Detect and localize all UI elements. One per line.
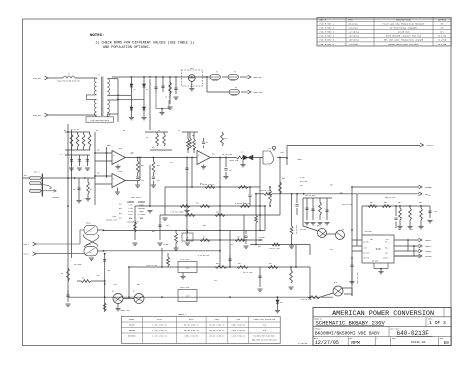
svg-text:R26: R26 <box>216 212 219 214</box>
svg-text:R11: R11 <box>225 138 228 140</box>
svg-text:PROBL1: PROBL1 <box>425 240 431 242</box>
svg-text:C11: C11 <box>157 180 160 182</box>
svg-text:F: F <box>377 338 378 340</box>
svg-text:COMMON: COMMON <box>425 256 431 258</box>
svg-text:R44: R44 <box>114 284 117 286</box>
svg-text:AND POPULATION OPTIONS.: AND POPULATION OPTIONS. <box>103 46 150 50</box>
svg-text:PCB E REV 1: PCB E REV 1 <box>320 22 335 25</box>
svg-text:MLJ: MLJ <box>440 31 445 34</box>
svg-text:1K_PD_LINE: 1K_PD_LINE <box>296 225 298 234</box>
svg-text:OSC: OSC <box>386 239 389 241</box>
svg-text:BK300MI/BK500MI VDE BABY: BK300MI/BK500MI VDE BABY <box>315 330 380 336</box>
svg-text:C16: C16 <box>230 244 233 246</box>
svg-text:10K_1N_LINE: 10K_1N_LINE <box>243 272 252 274</box>
svg-text:R41: R41 <box>238 263 241 265</box>
svg-text:COM_2: COM_2 <box>24 253 30 256</box>
svg-text:R33: R33 <box>203 225 206 227</box>
svg-text:25V: 25V <box>300 185 303 187</box>
svg-text:5REF: 5REF <box>107 145 111 147</box>
svg-text:R9: R9 <box>82 278 84 280</box>
svg-text:REV E: REV E <box>320 18 327 21</box>
svg-text:R70: R70 <box>410 229 413 231</box>
svg-text:IC2B: IC2B <box>280 152 284 154</box>
svg-text:RCL: RCL <box>119 217 122 219</box>
svg-text:38.3K 1/4W 1%: 38.3K 1/4W 1% <box>184 324 200 327</box>
svg-text:BK500: BK500 <box>129 329 136 332</box>
svg-text:D5: D5 <box>186 238 188 240</box>
svg-text:PC817_LINE: PC817_LINE <box>180 287 189 289</box>
svg-text:C30 C31 R60: C30 C31 R60 <box>305 195 315 197</box>
svg-text:R56,R88,16,R79,C35,Q27: R56,R88,16,R79,C35,Q27 <box>252 338 277 341</box>
svg-text:R15: R15 <box>97 150 100 152</box>
svg-text:4/25/96: 4/25/96 <box>298 342 308 345</box>
svg-text:CHG_AC1: CHG_AC1 <box>33 77 42 80</box>
svg-text:MODEL: MODEL <box>129 318 136 321</box>
svg-text:100K 1/4W 5%: 100K 1/4W 5% <box>184 335 198 338</box>
svg-text:R25: R25 <box>181 212 184 214</box>
svg-text:R40: R40 <box>216 263 219 265</box>
svg-text:2.74K 1/4W 1%: 2.74K 1/4W 1% <box>152 324 168 327</box>
svg-text:4.99K_PD_LINE: 4.99K_PD_LINE <box>269 248 280 250</box>
svg-text:4.99K_1N_LINE: 4.99K_1N_LINE <box>300 299 312 301</box>
svg-text:10K: 10K <box>131 152 134 154</box>
svg-text:10K_RD_LINE: 10K_RD_LINE <box>222 154 232 156</box>
svg-text:R4,R45,R57,R20,R88,: R4,R45,R57,R20,R88, <box>254 335 276 338</box>
svg-text:Q5_LINE: Q5_LINE <box>300 229 306 231</box>
svg-text:R23: R23 <box>196 203 199 205</box>
svg-text:3K3_PD_LINE: 3K3_PD_LINE <box>342 204 352 206</box>
svg-text:D12: D12 <box>280 302 283 304</box>
svg-text:CHG_AC2: CHG_AC2 <box>33 114 42 117</box>
svg-text:DRAWN BY: DRAWN BY <box>314 317 322 320</box>
svg-text:R42: R42 <box>269 263 272 265</box>
svg-text:PROBL2: PROBL2 <box>425 246 431 248</box>
svg-text:LOAD_FUSE/CHG_FUSE_DR: LOAD_FUSE/CHG_FUSE_DR <box>57 80 81 83</box>
svg-text:MOV: MOV <box>190 68 193 70</box>
svg-text:D2: D2 <box>146 89 148 91</box>
svg-text:2/19/95: 2/19/95 <box>349 43 359 46</box>
svg-text:R2: R2 <box>64 130 66 132</box>
svg-text:MOVED RESISTORS OPTIONS: MOVED RESISTORS OPTIONS <box>388 43 419 46</box>
svg-text:LINE: LINE <box>364 247 367 249</box>
svg-text:OUTPUT: OUTPUT <box>427 144 435 147</box>
svg-text:ISSUE ECN: ISSUE ECN <box>398 31 411 34</box>
svg-text:C14: C14 <box>229 170 232 172</box>
svg-text:F3: F3 <box>234 72 236 74</box>
svg-text:R1 R2 R3: R1 R2 R3 <box>71 129 79 131</box>
svg-text:RPM: RPM <box>351 340 360 346</box>
svg-text:R67 R68: R67 R68 <box>365 231 371 233</box>
svg-text:PCB E REV 2: PCB E REV 2 <box>320 26 335 29</box>
svg-text:1N4148_LINE: 1N4148_LINE <box>229 160 238 162</box>
svg-text:11/16/94: 11/16/94 <box>349 31 360 34</box>
svg-text:10/18/94: 10/18/94 <box>349 35 360 38</box>
svg-text:90.9K 1/4W 1%: 90.9K 1/4W 1% <box>210 324 226 327</box>
svg-text:IC1B: IC1B <box>118 171 122 173</box>
svg-text:C12: C12 <box>170 162 173 164</box>
svg-text:TL431_LINE: TL431_LINE <box>180 259 189 261</box>
svg-text:121K 1/4W 1%: 121K 1/4W 1% <box>231 335 245 338</box>
svg-text:RCL: RCL <box>119 208 122 210</box>
svg-text:R66: R66 <box>398 202 401 204</box>
svg-text:R69: R69 <box>398 229 401 231</box>
svg-text:5V_REF: 5V_REF <box>163 244 169 246</box>
svg-text:PBL_2: PBL_2 <box>385 247 389 249</box>
svg-text:0.1UF/50_LINE_LR: 0.1UF/50_LINE_LR <box>200 184 215 186</box>
svg-text:Q5: Q5 <box>317 225 319 227</box>
svg-text:R30: R30 <box>282 178 285 180</box>
svg-text:110K 1/4W 5%: 110K 1/4W 5% <box>231 324 245 327</box>
svg-text:R55: R55 <box>330 185 333 187</box>
svg-text:D3: D3 <box>146 137 148 139</box>
svg-text:APP: APP <box>350 337 353 340</box>
svg-text:RCL: RCL <box>119 213 122 215</box>
svg-text:R34: R34 <box>152 231 155 233</box>
svg-text:F2: F2 <box>216 72 218 74</box>
svg-text:1 OF 3: 1 OF 3 <box>429 320 446 326</box>
svg-text:R10: R10 <box>192 135 195 137</box>
svg-text:C41: C41 <box>428 195 431 197</box>
svg-text:C6: C6 <box>206 142 208 144</box>
svg-text:LINE: LINE <box>112 216 116 218</box>
svg-text:PILOT AND NEW PRODUCTION RELEA: PILOT AND NEW PRODUCTION RELEASE <box>382 22 425 25</box>
svg-text:0.1UF_RD_LINE: 0.1UF_RD_LINE <box>198 255 209 257</box>
svg-text:2N3904_LINE: 2N3904_LINE <box>120 310 129 312</box>
svg-text:C4: C4 <box>158 130 160 132</box>
svg-text:PCB E REV 5: PCB E REV 5 <box>320 39 335 42</box>
svg-text:1/19/94: 1/19/94 <box>349 26 359 29</box>
svg-text:REV VDE CONT PRODUCTION CHANGE: REV VDE CONT PRODUCTION CHANGE <box>384 39 424 42</box>
svg-text:90.9K 1/4W 1%: 90.9K 1/4W 1% <box>210 329 226 332</box>
svg-text:38.3K 1/4W 1%: 38.3K 1/4W 1% <box>184 329 200 332</box>
svg-text:SHEET: SHEET <box>428 319 433 321</box>
svg-text:CORDSE: CORDSE <box>425 251 431 253</box>
svg-text:R45: R45 <box>137 284 140 286</box>
svg-text:VDD: VDD <box>370 239 373 241</box>
svg-text:12/27/95: 12/27/95 <box>315 340 339 346</box>
svg-text:MLJ/MB: MLJ/MB <box>438 35 447 38</box>
svg-text:BK300: BK300 <box>129 324 136 327</box>
svg-text:90.9K 1/4W 1%: 90.9K 1/4W 1% <box>210 335 226 338</box>
svg-text:10/18/94: 10/18/94 <box>349 39 360 42</box>
svg-text:F1: F1 <box>68 74 70 76</box>
svg-text:REV: REV <box>440 338 443 340</box>
svg-text:R8: R8 <box>61 273 63 275</box>
svg-text:2.74K 1/4W 1%: 2.74K 1/4W 1% <box>152 329 168 332</box>
svg-text:R28: R28 <box>237 237 240 239</box>
svg-text:PCB E REV 4: PCB E REV 4 <box>320 35 335 38</box>
svg-text:R64: R64 <box>370 202 373 204</box>
svg-text:COM_1: COM_1 <box>24 243 31 246</box>
svg-text:110K 1/4W 5%: 110K 1/4W 5% <box>231 329 245 332</box>
svg-text:10UF_RD_LINE: 10UF_RD_LINE <box>357 272 359 284</box>
svg-text:C15: C15 <box>166 225 169 227</box>
svg-text:AMERICAN POWER CONVERSION: AMERICAN POWER CONVERSION <box>332 310 434 318</box>
svg-text:IC6: IC6 <box>375 248 381 251</box>
svg-text:D7: D7 <box>241 152 243 154</box>
svg-text:R5: R5 <box>123 130 125 132</box>
svg-text:MOVE BRIDGE CIRCUIT FOR ECO: MOVE BRIDGE CIRCUIT FOR ECO <box>386 35 422 38</box>
svg-text:R35: R35 <box>258 246 261 248</box>
svg-text:Q6: Q6 <box>342 229 344 231</box>
svg-text:PCB E REV 3: PCB E REV 3 <box>320 31 335 34</box>
svg-text:LOAD_NEU: LOAD_NEU <box>253 91 262 94</box>
svg-text:C8: C8 <box>73 189 75 191</box>
svg-text:C33: C33 <box>330 249 333 251</box>
svg-text:LINE VOLTS: LINE VOLTS <box>130 196 142 199</box>
svg-text:Q2: Q2 <box>133 291 135 293</box>
svg-text:MLJ/MB: MLJ/MB <box>438 43 447 46</box>
svg-text:Q20: Q20 <box>334 282 337 284</box>
svg-text:Q1: Q1 <box>112 291 114 293</box>
svg-text:R24: R24 <box>243 203 246 205</box>
svg-text:74HC04: 74HC04 <box>297 159 302 161</box>
svg-text:LINE_SENSE/CHG_SENSE: LINE_SENSE/CHG_SENSE <box>90 120 109 122</box>
svg-text:TABLE 1: TABLE 1 <box>177 313 187 316</box>
svg-text:R12: R12 <box>152 147 155 149</box>
svg-text:C7: C7 <box>60 154 62 156</box>
svg-text:R19: R19 <box>157 165 160 167</box>
svg-text:NO ELECTRICAL CHANGES: NO ELECTRICAL CHANGES <box>390 26 418 29</box>
svg-text:4.99K_PD_LINE: 4.99K_PD_LINE <box>259 190 271 192</box>
svg-text:D1: D1 <box>134 89 136 91</box>
svg-text:BK300MI: BK300MI <box>128 335 136 338</box>
svg-text:SENSE: SENSE <box>259 239 264 241</box>
svg-text:IC2: IC2 <box>268 148 271 150</box>
svg-text:2.74K 1/4W 1%: 2.74K 1/4W 1% <box>152 335 168 338</box>
svg-text:DESCRIPTION: DESCRIPTION <box>396 18 411 21</box>
svg-text:NOTES:: NOTES: <box>90 34 104 38</box>
svg-text:6/29/94: 6/29/94 <box>349 22 359 25</box>
svg-text:APPRVD: APPRVD <box>438 18 447 21</box>
svg-text:ECN: ECN <box>349 18 354 21</box>
svg-text:PCB E REV 6: PCB E REV 6 <box>320 43 335 46</box>
svg-text:E0: E0 <box>444 341 450 346</box>
svg-text:RCL: RCL <box>119 204 122 206</box>
svg-text:F4: F4 <box>235 87 237 89</box>
svg-text:COMMON: COMMON <box>383 257 388 259</box>
svg-text:VREF_PD_LINE: VREF_PD_LINE <box>385 197 395 199</box>
svg-text:R56: R56 <box>340 193 343 195</box>
svg-text:C40: C40 <box>434 211 437 213</box>
svg-text:1) CHECK BOMS FOR DIFFERENT VA: 1) CHECK BOMS FOR DIFFERENT VALUES (SEE … <box>95 41 194 46</box>
svg-text:CHARGE: CHARGE <box>425 186 433 189</box>
svg-text:6213F-04: 6213F-04 <box>411 341 426 344</box>
svg-text:STANDARD/OPT: STANDARD/OPT <box>127 220 141 223</box>
svg-text:R88: R88 <box>419 202 422 204</box>
svg-text:R21: R21 <box>212 154 215 156</box>
svg-text:DWG: DWG <box>392 338 395 340</box>
svg-text:C10: C10 <box>141 180 144 182</box>
svg-text:4.99K_1N_LINE: 4.99K_1N_LINE <box>146 265 157 267</box>
svg-text:LOAD_HOT: LOAD_HOT <box>253 76 263 79</box>
svg-text:R27: R27 <box>203 237 206 239</box>
svg-text:C20: C20 <box>214 280 217 282</box>
svg-text:R7: R7 <box>90 189 92 191</box>
svg-text:R16: R16 <box>97 173 100 175</box>
svg-text:C3: C3 <box>178 130 180 132</box>
svg-text:R48: R48 <box>108 270 111 272</box>
svg-text:C29_LINE: C29_LINE <box>300 181 307 183</box>
svg-text:N/O: N/O <box>129 218 132 220</box>
svg-text:PBL_1: PBL_1 <box>385 241 389 243</box>
svg-text:R65: R65 <box>384 202 387 204</box>
svg-text:0.1UF: 0.1UF <box>300 177 305 179</box>
svg-text:N/O: N/O <box>140 218 143 220</box>
svg-text:R4: R4 <box>96 130 98 132</box>
svg-text:CORD: CORD <box>385 252 388 254</box>
svg-text:COMPS NOT INSTALLED: COMPS NOT INSTALLED <box>254 318 276 321</box>
svg-text:R47: R47 <box>97 275 100 277</box>
svg-text:PRODUCT: PRODUCT <box>315 328 322 330</box>
svg-text:R18: R18 <box>141 165 144 167</box>
svg-text:MLJ/MB: MLJ/MB <box>438 39 447 42</box>
